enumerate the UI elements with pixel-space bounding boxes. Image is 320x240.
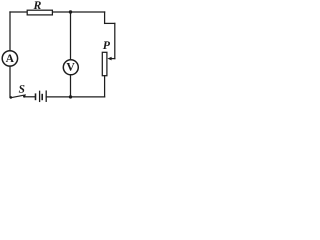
label V: [67, 63, 75, 71]
wire left vertical upper: [9, 12, 11, 51]
ammeter A: [2, 51, 17, 66]
wire top left segment: [10, 11, 28, 13]
battery plate long 2: [45, 91, 47, 101]
resistor R: [27, 10, 52, 15]
wire right jog horizontal: [105, 22, 115, 24]
wire below rheostat: [104, 76, 106, 97]
wire right jog down: [104, 12, 106, 23]
switch contact right: [23, 95, 25, 97]
battery plate long 1: [39, 91, 41, 101]
wire right vertical: [114, 23, 116, 58]
wire voltmeter top: [70, 12, 72, 60]
label A: [6, 55, 14, 63]
wire bottom right segment: [46, 96, 104, 98]
label R: [33, 1, 40, 9]
wire top right segment: [52, 11, 104, 13]
wire left vertical lower: [9, 66, 11, 97]
battery plate short 2: [41, 95, 43, 100]
switch contact left: [10, 96, 13, 99]
label S: [19, 85, 25, 93]
node junction bottom: [69, 95, 72, 98]
wire wiper horizontal: [111, 58, 115, 60]
switch S lever: [11, 95, 25, 98]
voltmeter V: [63, 60, 78, 75]
rheostat P: [102, 52, 107, 75]
wiper arrowhead: [107, 57, 111, 61]
wire voltmeter bottom: [70, 75, 72, 97]
wire switch to battery: [24, 96, 35, 98]
node junction top: [69, 10, 72, 13]
label P: [103, 41, 110, 49]
battery plate short 1: [35, 94, 37, 99]
